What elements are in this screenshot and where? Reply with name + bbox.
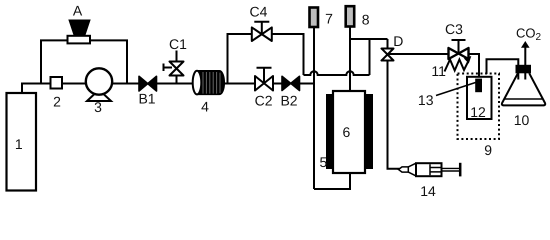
wire: C4 bypass branch left riser [228,34,253,84]
reactor column 6 [333,91,365,173]
pressure sensor 7 [310,8,319,28]
flask liquid level [505,98,542,100]
svg-text:9: 9 [484,142,492,158]
svg-text:4: 4 [201,98,209,114]
syringe 14 flare [408,163,416,176]
wire: valve D down-line to syringe 14 [388,61,400,169]
measuring cell 12 [467,77,492,119]
reactor heater bar left (5) [326,94,333,169]
wire: pump bypass loop over pump 3 [41,40,127,84]
wire: C4 bypass right segment and down riser [271,34,303,75]
svg-text:3: 3 [94,99,102,115]
water bath 9 (dotted box) [458,74,500,140]
wire: bath 9 outlet line into flask 10 [487,59,519,79]
svg-text:11: 11 [431,63,446,79]
wire: valve C3 outlet into cell 12 [468,54,479,79]
wire: main line from cylinder 1 riser to reactor tee [22,84,314,94]
valve C1 (vertical open bowtie with side handle) [164,51,184,76]
svg-text:13: 13 [418,92,434,108]
flask stopper [516,65,532,74]
wire: C1 branch stem to main line [176,75,178,84]
wire: sensor 7 drop line through hop down to bottom manifold [313,28,315,189]
valve C3 (open bowtie with T-handle and spring) [445,40,472,72]
syringe 14 plunger seal [430,164,442,175]
wire: sensor 8 drop line into reactor top [349,28,351,93]
svg-text:A: A [73,2,83,18]
svg-text:C2: C2 [255,92,273,108]
wire: valve D top stem [387,39,389,49]
svg-text:2: 2 [53,93,61,109]
svg-text:D: D [393,33,403,49]
svg-text:6: 6 [343,124,351,140]
syringe 14 handle [459,163,462,177]
svg-text:C3: C3 [445,21,463,37]
spring / regulator arrow of C3 [445,60,469,72]
valve D (vertical open bowtie) [382,49,394,61]
svg-text:B1: B1 [138,91,155,107]
pump 3 base feet [87,94,111,102]
pointer line from label 13 [436,83,476,96]
hopper A [69,20,90,35]
svg-text:1: 1 [15,136,23,152]
svg-text:10: 10 [514,112,530,128]
svg-text:5: 5 [320,154,328,170]
inline filter 2 [51,77,63,89]
flask 10 body [502,73,545,105]
svg-text:C1: C1 [169,36,187,52]
pump 3 circle [86,68,112,94]
wire: line from sensor 8 drop to valve D [350,38,388,40]
valve C4 (open bowtie with T-handle) [252,22,272,41]
pressure sensor 8 [346,6,355,26]
syringe 14 rod [442,168,460,171]
hopper A pedestal [68,36,91,44]
wire: flask vent tube [524,47,526,80]
wire: line 11 from valve D to valve C3 [388,53,450,55]
wire: bypass line with hops over vertical drops [304,71,370,75]
coil 4 left end cap [193,71,202,95]
svg-text:7: 7 [325,11,333,27]
svg-text:14: 14 [420,183,436,199]
syringe 14 barrel [416,163,442,176]
gas cylinder 1 [7,93,37,191]
wire: reactor bottom feed manifold [314,172,350,189]
svg-text:8: 8 [362,11,370,27]
vent arrowhead CO2 [521,41,530,48]
electrode plug 13 [475,79,482,93]
wire: tee riser joining bypass to line 8-D [369,39,371,75]
syringe 14 needle hub [399,167,409,172]
svg-text:12: 12 [470,104,486,120]
valve C2 (open bowtie with T-handle) [255,68,273,91]
svg-text:B2: B2 [280,92,297,108]
coil 4 body [193,71,225,95]
svg-text:C4: C4 [250,3,268,19]
reactor heater bar right [365,94,373,169]
valve B2 (filled bowtie) [282,76,300,90]
valve B1 (filled bowtie) [139,76,157,91]
